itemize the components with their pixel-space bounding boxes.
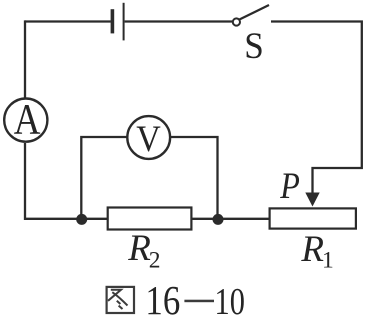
svg-text:2: 2 — [149, 248, 161, 274]
svg-text:P: P — [279, 166, 300, 206]
svg-text:R: R — [300, 229, 324, 270]
svg-text:1: 1 — [322, 248, 334, 274]
svg-text:10: 10 — [215, 281, 245, 317]
svg-text:A: A — [14, 95, 41, 143]
svg-text:S: S — [244, 25, 264, 66]
svg-text:V: V — [136, 119, 161, 159]
svg-text:16: 16 — [145, 279, 180, 317]
svg-text:R: R — [127, 228, 151, 269]
